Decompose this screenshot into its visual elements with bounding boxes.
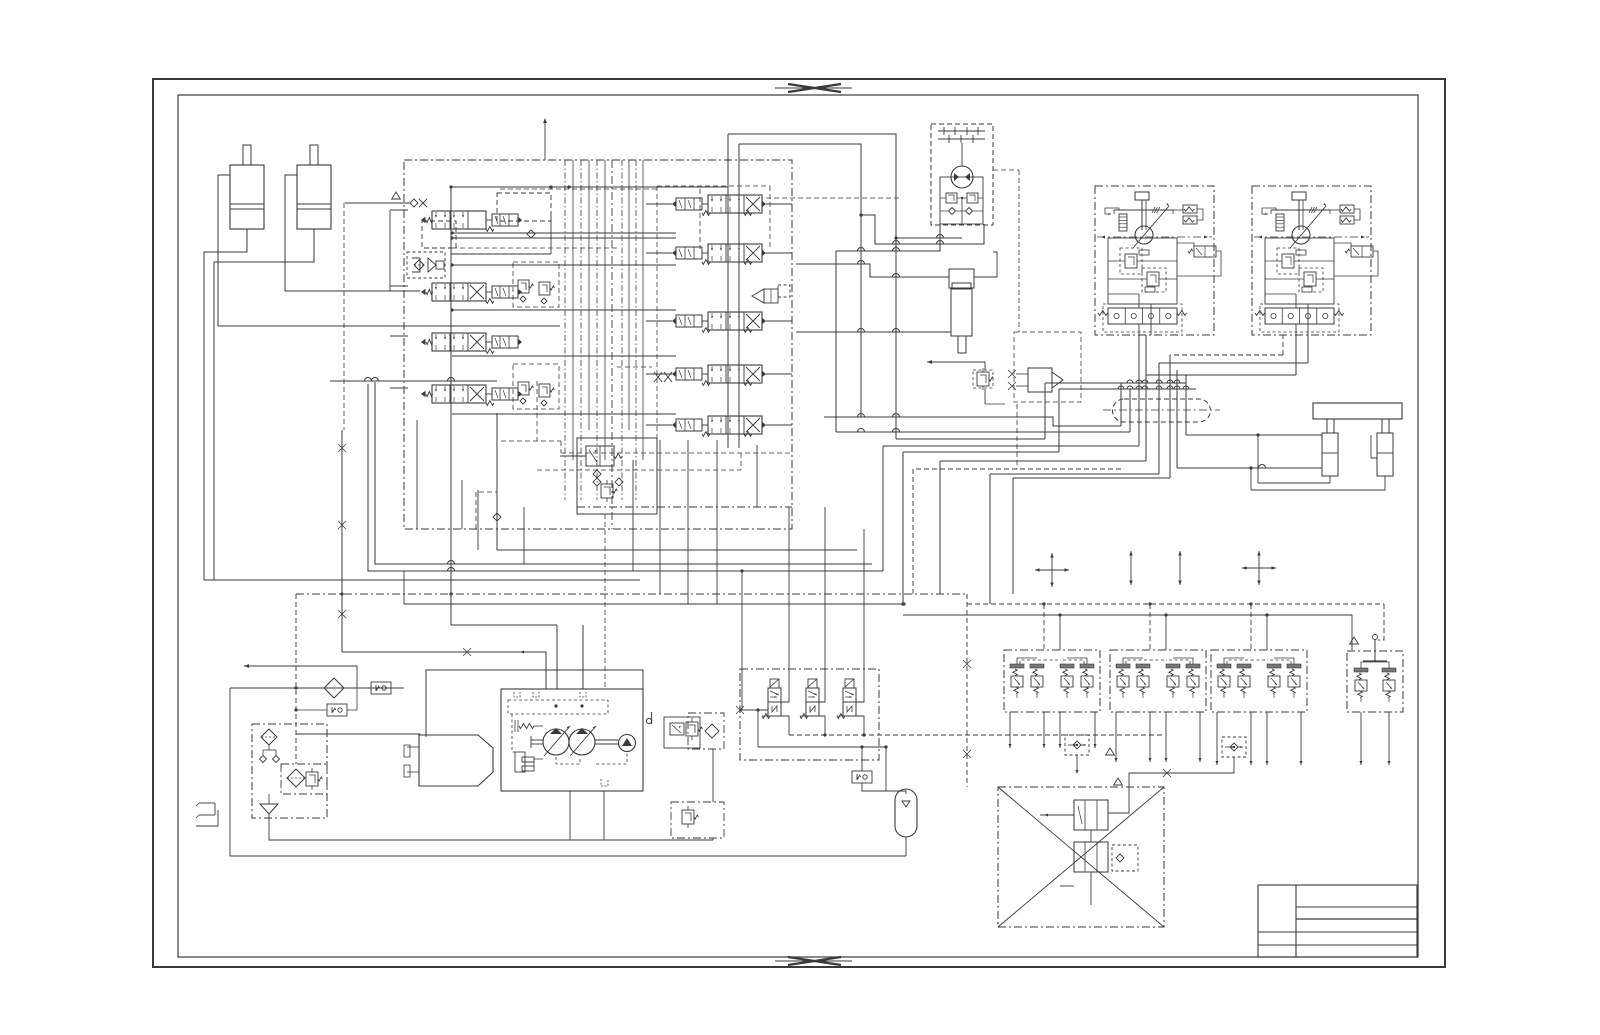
pilot group 1	[1004, 650, 1100, 712]
wire swivel verticals	[1138, 335, 1140, 410]
triangle mark A	[392, 192, 401, 199]
pilot group 3	[1211, 650, 1307, 712]
mcv dash-dot boundary	[404, 160, 792, 529]
pilot group 4 dozer	[1347, 651, 1403, 712]
wire bus y326	[218, 325, 560, 327]
breather	[199, 802, 215, 804]
wire return main	[230, 687, 404, 689]
wires swing ports	[940, 210, 948, 212]
wire bus y564	[375, 382, 872, 564]
solenoid valve S1	[770, 679, 779, 688]
wires shutoff	[560, 455, 586, 457]
accumulator	[895, 789, 917, 837]
valve boom2 M3	[672, 318, 676, 324]
wire bus jogs	[727, 564, 733, 571]
engine	[419, 735, 493, 786]
mcv inner dashed boundary	[577, 506, 792, 508]
valve arm1 V2	[421, 289, 426, 295]
valve boom1 V1	[421, 217, 426, 223]
wire mcv top arrow	[544, 120, 546, 160]
pump internal dashed	[508, 700, 608, 714]
valve bucket V3	[421, 339, 426, 345]
tank filter top	[261, 729, 277, 745]
valve aux M5	[672, 422, 676, 428]
wire m pilot stubs	[646, 203, 672, 205]
pilot shutoff valve enclosure	[577, 438, 657, 514]
triangle near shuttle	[1106, 748, 1115, 755]
wire left stub	[196, 810, 218, 826]
cylinder dozer-left	[1322, 433, 1338, 476]
border inner frame	[178, 95, 1418, 957]
wire bus y571	[368, 384, 883, 571]
center mark top	[788, 84, 841, 92]
relief pair V4	[518, 382, 529, 395]
triangle mark dozer	[1350, 637, 1359, 644]
wires dozer	[1186, 434, 1322, 436]
wire fan left below swivel	[824, 417, 1121, 426]
cylinder boom-right	[297, 165, 331, 229]
xbox valve stack	[1074, 800, 1108, 830]
relief pair V2	[518, 280, 529, 293]
travel motor right	[1252, 186, 1371, 335]
wire pilot to pump dashed	[604, 514, 606, 689]
cylinder dozer-right	[1377, 433, 1393, 476]
wires solenoid block	[740, 709, 768, 711]
pump outlet lines	[556, 625, 558, 689]
check valve accumulator	[852, 771, 872, 783]
wire mcv feed lines	[452, 232, 676, 234]
xbox sub box	[1112, 845, 1138, 871]
shuttle under g3	[1222, 737, 1246, 757]
cylinder boom-left	[230, 165, 264, 229]
pressure regulator	[601, 484, 613, 498]
travel motor left	[1095, 186, 1214, 335]
shuttle under g1	[1065, 735, 1089, 755]
wire riser x342	[341, 430, 343, 652]
wires accumulator	[861, 747, 863, 771]
wire bus y615	[901, 602, 904, 605]
pump servo	[515, 752, 525, 772]
wire bus y594 dashed	[296, 593, 967, 595]
wire routing top rect1	[728, 134, 896, 439]
dashed box m-column	[656, 186, 658, 440]
wire return arrow left	[244, 666, 357, 688]
pump1 variable	[543, 729, 569, 755]
wires bucket cylinder	[796, 264, 949, 277]
pump regulator spring	[519, 723, 534, 728]
swing relief pair	[946, 193, 957, 203]
wire tank return arrow	[927, 361, 985, 363]
solenoid block dashdot	[740, 669, 879, 760]
cross arrows 3	[1179, 551, 1181, 585]
relief valve return	[977, 372, 989, 386]
swing motor inner box	[940, 177, 983, 224]
check valve bypass1	[371, 682, 391, 694]
wire swivel horiz y383	[1045, 382, 1186, 384]
cone shuttle unit	[752, 289, 764, 303]
wire motor cross links	[1146, 374, 1296, 376]
wire mcv top bus	[450, 187, 452, 480]
reducing valve unit	[407, 252, 445, 278]
swing motor	[951, 166, 973, 188]
strainer box	[281, 764, 327, 794]
dashed box right of V1	[497, 193, 551, 221]
tank symbol	[260, 804, 278, 814]
title block	[1258, 885, 1417, 957]
valve arm2 M4	[672, 371, 676, 377]
wire to tank box	[296, 733, 420, 735]
wire pilot bundle verticals	[564, 160, 566, 500]
pump drain	[569, 791, 571, 840]
wire pilot dashed bus	[966, 594, 968, 604]
cross arrows 1	[1035, 569, 1069, 571]
wire mcv risers	[416, 420, 418, 529]
pump2 variable	[569, 729, 595, 755]
tank dashdot box	[252, 724, 327, 818]
valve travelR M2	[672, 250, 676, 256]
check diamonds	[593, 470, 601, 478]
cylinder bucket	[949, 269, 974, 288]
dashed box below V1	[422, 221, 456, 248]
hand pump dashed box	[1014, 332, 1081, 402]
wire bus y604	[403, 571, 405, 604]
valve travelL M1	[672, 201, 676, 207]
engine enclosure	[426, 670, 643, 737]
cross arrows 2	[1130, 551, 1132, 585]
dozer mount plate	[1313, 403, 1402, 419]
wire bus y580	[204, 579, 640, 581]
wires xbox	[1040, 814, 1074, 816]
swing motor port plates	[938, 130, 985, 132]
wires pilot group drops	[1009, 712, 1011, 748]
wire riser x451	[450, 480, 452, 625]
pump ports	[514, 692, 520, 697]
wire pilot solid bus	[903, 615, 1352, 650]
wire dashed drain vertical	[295, 594, 297, 764]
cross valves M4	[654, 372, 662, 382]
wire bus y550	[497, 413, 857, 550]
wire below swivel	[1176, 370, 1178, 410]
wire swivel horiz y389	[1059, 388, 1196, 390]
cross arrows 4	[1242, 567, 1276, 569]
wire swing port C	[836, 224, 940, 251]
wire cylinder piping	[218, 175, 230, 326]
check valve bypass2	[327, 704, 347, 716]
wire bus y652	[342, 652, 546, 689]
pump shaft	[595, 739, 618, 741]
swivel joint	[1113, 399, 1211, 422]
oil cooler	[324, 678, 344, 698]
wire hand pump dashed drop	[1016, 404, 1018, 469]
valve swing V4	[421, 391, 426, 397]
pilot shutoff valve	[586, 446, 614, 466]
center mark bottom	[788, 957, 841, 965]
wire xbox dashed riser	[966, 594, 968, 787]
check valve shuttle top-left	[410, 199, 418, 207]
wire dashed stub x476	[476, 492, 497, 529]
wire tank bottom	[269, 814, 713, 840]
wire swing port B	[861, 215, 984, 244]
wire m1 dashed link	[766, 197, 900, 199]
aux valve unit	[664, 717, 700, 748]
solenoid valve S2	[808, 679, 817, 688]
engine mount	[407, 746, 419, 748]
aux filter diamond	[688, 713, 724, 749]
aux lower relief	[671, 802, 724, 838]
solenoid valve S3	[845, 679, 854, 688]
hand pump unit	[1028, 368, 1052, 392]
swing motor dashed box	[931, 124, 993, 225]
wire swing dashed right	[993, 169, 1019, 171]
wire riser x742	[727, 564, 742, 710]
pump housing	[501, 689, 643, 791]
mcv dashed pilot links	[500, 188, 657, 190]
strainer filter	[287, 769, 305, 787]
dozer lever	[1374, 640, 1376, 662]
wire sol outputs	[789, 710, 1010, 735]
wire routing top rect2	[739, 144, 861, 417]
border outer frame	[153, 79, 1445, 967]
wire left valve stubs	[390, 209, 408, 211]
gear pump	[619, 735, 636, 752]
xbox dashed	[998, 787, 1164, 927]
wire pilot dashed x344	[343, 203, 345, 430]
wire y381 line	[330, 380, 497, 382]
wire swing port A	[896, 237, 962, 239]
pilot group 2	[1110, 650, 1206, 712]
wire valve stubs right column	[766, 203, 792, 205]
